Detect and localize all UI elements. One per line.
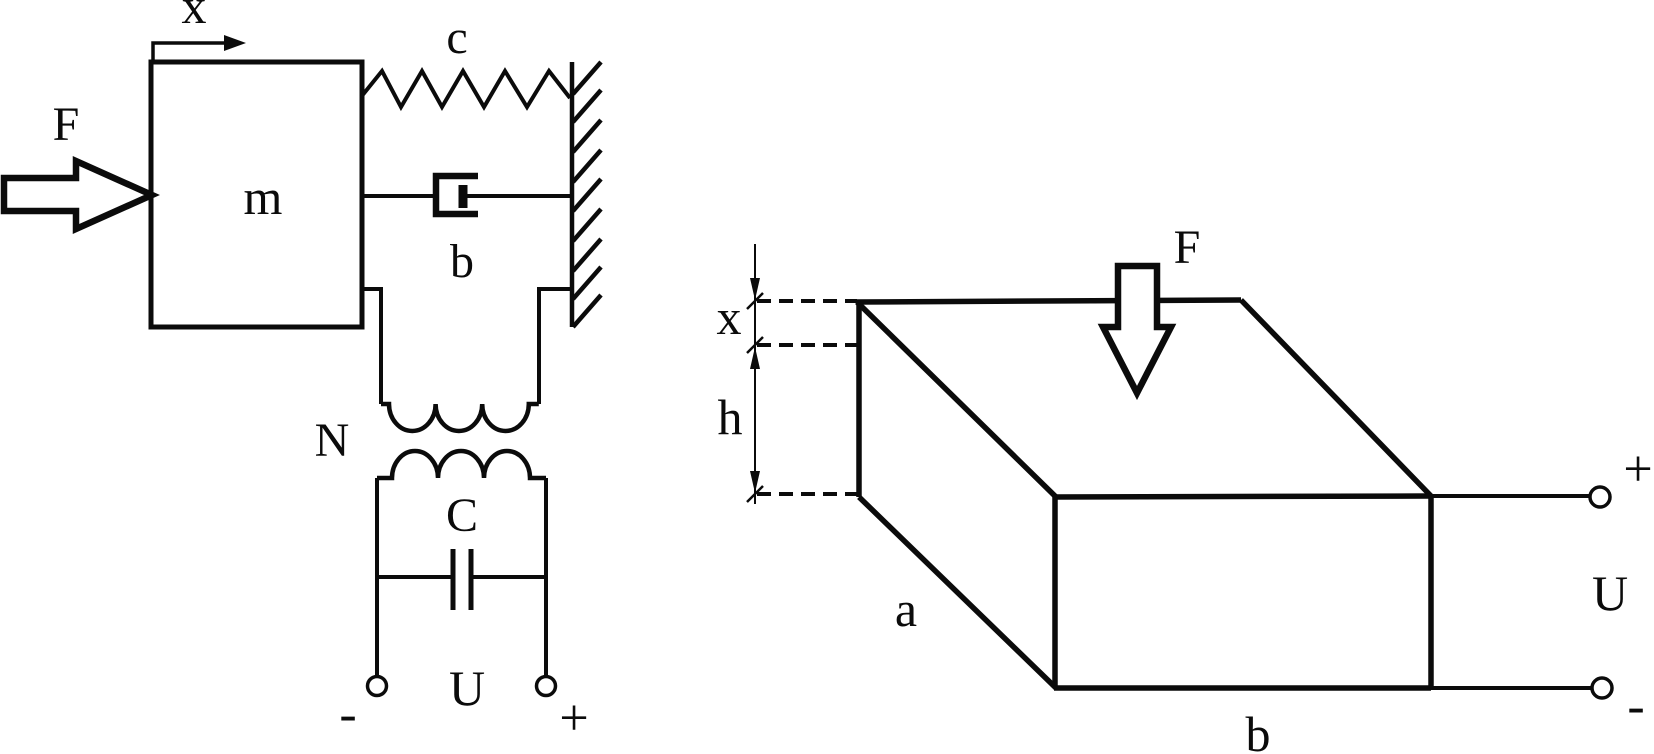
svg-text:U: U: [449, 660, 485, 716]
svg-text:F: F: [53, 98, 80, 151]
terminal plus (right circle): [537, 677, 556, 696]
dimension tick middle: [747, 337, 763, 353]
capacitor C wire right: [473, 575, 546, 579]
svg-text:b: b: [450, 235, 474, 288]
wire to minus terminal: [1431, 686, 1592, 690]
svg-text:a: a: [895, 581, 917, 637]
piezo block (3D box): [857, 300, 1431, 688]
transformer lower coil N: [377, 451, 546, 478]
dashed line top: [757, 299, 857, 303]
wire lower right: [544, 478, 548, 677]
svg-text:+: +: [1623, 441, 1652, 498]
capacitor C left plate: [451, 549, 456, 610]
dimension arrow up to middle line: [750, 347, 760, 369]
svg-text:-: -: [1627, 678, 1644, 735]
transformer upper coil N: [381, 404, 539, 431]
svg-text:U: U: [1592, 565, 1628, 621]
dimension tick bottom: [747, 486, 763, 502]
svg-text:F: F: [1174, 221, 1201, 274]
wire lower left: [375, 478, 379, 677]
svg-text:+: +: [559, 690, 588, 747]
svg-text:C: C: [446, 489, 478, 542]
wall hatching: [573, 62, 601, 327]
svg-text:-: -: [339, 686, 356, 743]
spring c: [361, 71, 570, 107]
dimension tick top: [747, 293, 763, 309]
force arrow F (block arrow): [4, 161, 152, 229]
plus terminal circle: [1590, 487, 1610, 507]
dashed line middle: [757, 343, 857, 347]
capacitor C right plate: [469, 549, 474, 610]
svg-text:m: m: [244, 169, 283, 225]
damper b rod right: [462, 194, 572, 198]
svg-text:h: h: [718, 389, 743, 445]
svg-text:x: x: [717, 289, 742, 345]
damper b cylinder cup: [436, 176, 478, 214]
damper b rod left: [360, 194, 436, 198]
force arrow F (block arrow down): [1103, 266, 1171, 393]
dimension arrow down to top line: [750, 278, 760, 300]
wire stub from mass to upper coil: [362, 289, 381, 404]
svg-text:x: x: [182, 0, 207, 34]
svg-text:c: c: [446, 11, 467, 64]
svg-text:N: N: [315, 414, 350, 467]
terminal minus (left circle): [368, 677, 387, 696]
minus terminal circle: [1592, 678, 1612, 698]
svg-text:b: b: [1246, 706, 1271, 754]
displacement arrow x: [153, 43, 230, 63]
dashed line bottom: [757, 492, 857, 496]
dimension arrow down to bottom line: [750, 471, 760, 493]
wall: [570, 62, 575, 327]
damper b piston: [459, 185, 468, 208]
mass m box: [151, 62, 362, 327]
arrowhead of displacement arrow: [224, 35, 246, 51]
wire stub from wall to upper coil: [539, 289, 572, 404]
wire to plus terminal: [1431, 494, 1590, 498]
dimension vertical line: [754, 244, 756, 504]
capacitor C wire left: [377, 575, 451, 579]
